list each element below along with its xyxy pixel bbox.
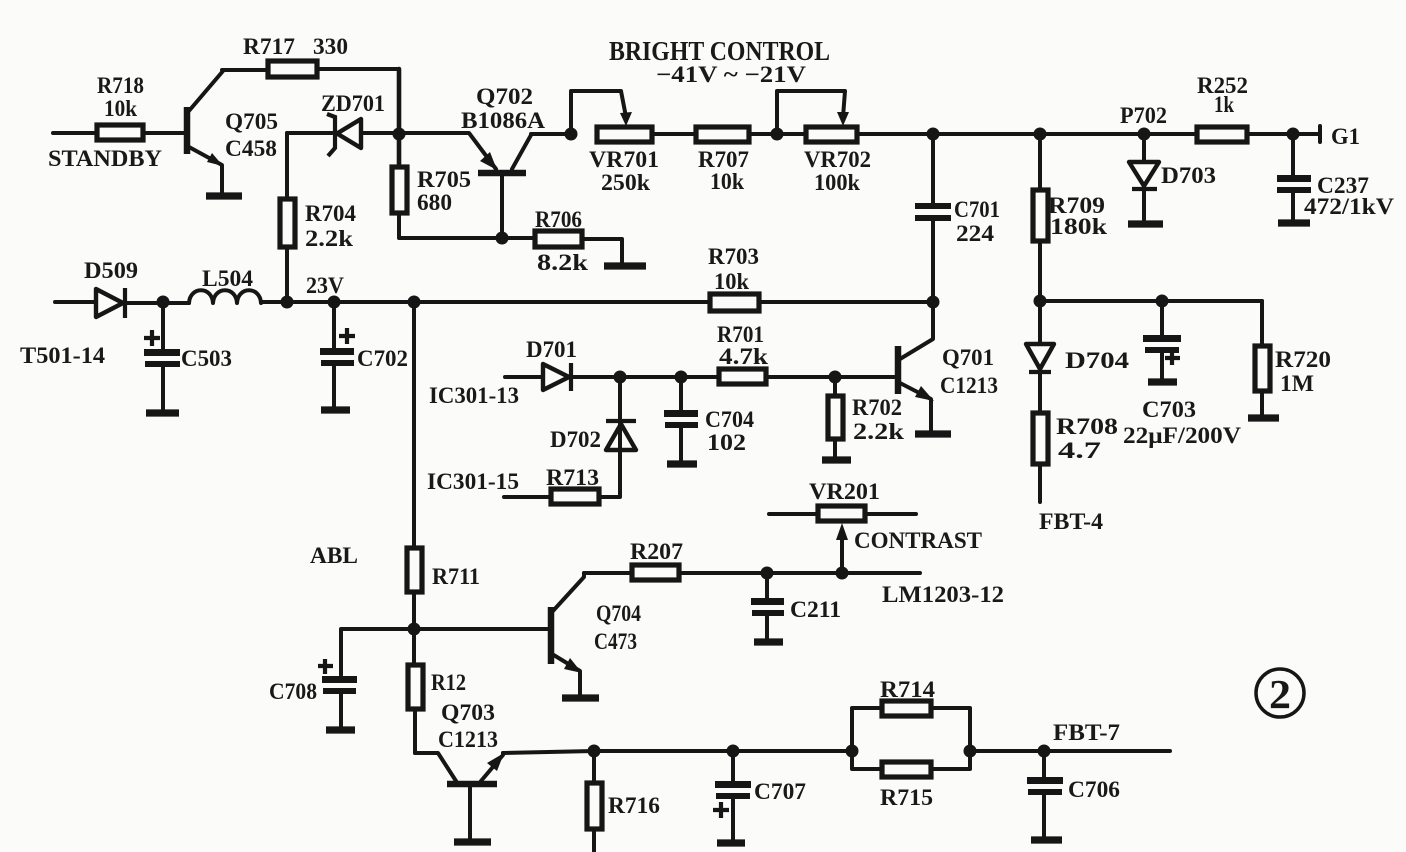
svg-text:ZD701: ZD701: [321, 91, 385, 116]
svg-text:C703: C703: [1142, 397, 1196, 422]
svg-text:C706: C706: [1068, 777, 1120, 802]
node STANDBY label: [48, 146, 162, 171]
wire IC301-13 input: [429, 377, 543, 408]
node junction C707: [727, 745, 740, 758]
capacitor C707: [713, 751, 806, 839]
svg-text:1k: 1k: [1214, 92, 1234, 117]
ground C211: [754, 638, 783, 645]
ground C704: [667, 460, 697, 467]
svg-text:Q701: Q701: [942, 345, 994, 370]
svg-text:C702: C702: [357, 346, 408, 371]
node junction C701 top: [927, 128, 940, 141]
svg-text:R720: R720: [1275, 347, 1331, 372]
node page number 2: [1256, 669, 1304, 717]
resistor R706 8.2k: [502, 207, 622, 275]
wire node to C708: [341, 629, 414, 675]
svg-text:G1: G1: [1331, 124, 1360, 149]
ground Q701 emitter: [915, 430, 951, 437]
svg-text:R207: R207: [630, 539, 683, 564]
svg-text:R717: R717: [243, 34, 295, 59]
resistor R713: [546, 465, 599, 504]
svg-text:VR702: VR702: [804, 147, 871, 172]
svg-text:1M: 1M: [1280, 371, 1314, 396]
node junction ABL/R12/C708: [408, 623, 421, 636]
resistor R252 1k: [1197, 73, 1248, 142]
svg-text:ABL: ABL: [310, 543, 358, 568]
node junction D702 top: [614, 371, 627, 384]
svg-text:C1213: C1213: [940, 373, 998, 398]
resistor R702 2.2k: [828, 377, 904, 456]
svg-text:472/1kV: 472/1kV: [1304, 194, 1394, 219]
svg-text:D704: D704: [1065, 348, 1130, 373]
svg-text:R705: R705: [417, 167, 471, 192]
svg-text:R711: R711: [432, 564, 480, 589]
wire D701 node to C704 node: [620, 375, 681, 379]
wire Q703 to R714 bracket: [503, 751, 852, 753]
resistor R711: [407, 548, 480, 629]
svg-text:4.7k: 4.7k: [719, 344, 768, 369]
node junction C237: [1287, 128, 1300, 141]
svg-text:8.2k: 8.2k: [537, 250, 588, 275]
svg-text:FBT-4: FBT-4: [1039, 509, 1104, 534]
ground R702: [822, 456, 851, 463]
ground C707: [717, 839, 745, 846]
capacitor C701 224: [915, 134, 1000, 300]
node junction R716: [588, 745, 601, 758]
diode D703: [1129, 134, 1216, 221]
potentiometer VR701 250k: [571, 91, 659, 195]
svg-text:Q703: Q703: [441, 700, 495, 725]
svg-text:D701: D701: [526, 337, 577, 362]
node junction C704 top: [675, 371, 688, 384]
resistor R709 180k: [1033, 134, 1107, 301]
transistor Q701: [898, 302, 998, 430]
resistor R720 1M: [1255, 301, 1331, 414]
ground D703: [1128, 220, 1163, 227]
svg-text:LM1203-12: LM1203-12: [882, 582, 1004, 607]
resistor R707 10k: [696, 127, 749, 194]
node LM1203-12 label: [882, 582, 1004, 607]
node CONTRAST label: [854, 528, 982, 553]
svg-text:224: 224: [956, 221, 995, 246]
wire Q702 emitter to rail: [531, 132, 571, 136]
wire node to Q704 base: [414, 627, 548, 631]
wire VR701 to R707: [652, 132, 696, 136]
ground Q704 emitter: [562, 694, 599, 701]
wire T501-14 input: [20, 302, 106, 368]
svg-text:180k: 180k: [1050, 214, 1107, 239]
svg-text:23V: 23V: [306, 273, 344, 298]
resistor R703 10k: [708, 244, 759, 311]
capacitor C702: [320, 302, 408, 406]
svg-text:D509: D509: [84, 258, 138, 283]
svg-text:R12: R12: [431, 670, 466, 695]
capacitor C503: [144, 302, 232, 409]
svg-text:2: 2: [1269, 671, 1291, 717]
svg-text:R716: R716: [608, 793, 660, 818]
svg-text:P702: P702: [1120, 103, 1167, 128]
node junction C701 bottom / Q701 collector: [927, 296, 940, 309]
node junction bracket left: [846, 745, 859, 758]
svg-text:T501-14: T501-14: [20, 343, 106, 368]
wire R707 to VR702: [749, 132, 806, 136]
node junction R702 top: [829, 371, 842, 384]
ground R706: [604, 262, 646, 269]
capacitor C211: [751, 573, 841, 638]
resistor R207: [630, 539, 683, 580]
node junction bracket right: [964, 745, 977, 758]
diode D702 zener: [550, 377, 636, 497]
ground C706: [1031, 836, 1062, 843]
node junction R704 bottom: [281, 296, 294, 309]
wire R252 to G1: [1247, 126, 1320, 142]
svg-text:R715: R715: [880, 785, 933, 810]
capacitor C704 102: [664, 377, 754, 460]
resistor R705 680: [392, 134, 501, 238]
svg-text:C503: C503: [181, 346, 232, 371]
svg-text:B1086A: B1086A: [461, 108, 545, 133]
ground Q705 emitter: [206, 192, 242, 199]
svg-text:IC301-13: IC301-13: [429, 383, 519, 408]
svg-text:330: 330: [313, 34, 348, 59]
wire Q704 collector to R207: [584, 571, 632, 575]
svg-text:Q705: Q705: [225, 109, 278, 134]
ground C708: [326, 726, 355, 733]
svg-text:CONTRAST: CONTRAST: [854, 528, 982, 553]
ground R720: [1248, 414, 1279, 421]
node junction C503: [157, 296, 170, 309]
potentiometer VR201: [769, 479, 916, 573]
svg-text:Q704: Q704: [596, 601, 641, 626]
resistor R717 330: [243, 34, 348, 77]
svg-text:680: 680: [417, 190, 452, 215]
svg-text:2.2k: 2.2k: [305, 226, 353, 251]
transistor Q705: [187, 71, 278, 193]
transistor Q703: [415, 700, 504, 838]
node BRIGHT CONTROL label: [609, 36, 830, 87]
svg-text:C473: C473: [594, 629, 637, 654]
wire vertical R717/ZD701/R705: [397, 69, 402, 168]
svg-text:L504: L504: [202, 266, 254, 291]
svg-text:FBT-7: FBT-7: [1053, 720, 1120, 745]
node FBT-7 label: [1053, 720, 1120, 745]
node junction C703 top: [1156, 295, 1169, 308]
resistor R714: [852, 677, 970, 751]
svg-text:C708: C708: [269, 679, 317, 704]
resistor R12: [408, 629, 466, 753]
node junction D704 top: [1034, 295, 1047, 308]
svg-text:22μF/200V: 22μF/200V: [1123, 423, 1241, 448]
wire R703 to C701 node: [759, 300, 933, 304]
wire ABL vertical: [310, 302, 414, 568]
wire Q705 collector to R717: [222, 68, 268, 72]
node junction ABL branch: [408, 296, 421, 309]
node FBT-4 label: [1039, 509, 1104, 534]
transistor Q704: [551, 573, 641, 694]
wire contrast line: [679, 571, 920, 575]
node G1 label: [1331, 124, 1360, 149]
svg-text:10k: 10k: [714, 269, 749, 294]
wire 23V rail: [261, 273, 710, 302]
wire R718 to Q705 base: [143, 131, 185, 135]
potentiometer VR702 100k: [777, 91, 871, 195]
svg-text:R706: R706: [535, 207, 582, 232]
wire IC301-15 input: [427, 469, 551, 497]
wire STANDBY input: [53, 131, 97, 135]
diode D509: [84, 258, 189, 318]
svg-text:STANDBY: STANDBY: [48, 146, 162, 171]
ground Q703: [454, 838, 491, 845]
resistor R718: [97, 73, 144, 140]
node junction VR702 loop: [771, 128, 784, 141]
capacitor C703 22uF/200V: [1123, 301, 1241, 448]
node junction ZD701/R705: [393, 128, 406, 141]
inductor L504: [189, 266, 261, 303]
capacitor C237 472/1kV: [1277, 134, 1394, 223]
ground C503: [146, 409, 179, 416]
node P702: [1120, 103, 1167, 141]
capacitor C706: [1027, 751, 1120, 836]
node junction VR701 loop: [565, 128, 578, 141]
svg-text:D702: D702: [550, 427, 601, 452]
svg-text:C211: C211: [790, 597, 841, 622]
svg-text:VR201: VR201: [809, 479, 880, 504]
svg-text:C701: C701: [954, 197, 1000, 222]
node junction R709 top: [1034, 128, 1047, 141]
svg-text:10k: 10k: [710, 169, 744, 194]
svg-text:C707: C707: [754, 779, 806, 804]
diode D701: [526, 337, 620, 391]
svg-text:250k: 250k: [601, 170, 650, 195]
resistor R715: [852, 751, 970, 810]
node junction VR201 wiper: [836, 567, 849, 580]
diode ZD701: [287, 91, 394, 156]
svg-text:R718: R718: [97, 73, 144, 98]
svg-text:C1213: C1213: [438, 727, 498, 752]
node junction C702: [328, 296, 341, 309]
svg-text:R713: R713: [546, 465, 599, 490]
wire R701 to Q701 base: [766, 375, 896, 379]
node junction C706: [1038, 745, 1051, 758]
svg-text:102: 102: [707, 430, 746, 455]
resistor R701 4.7k: [717, 322, 768, 384]
svg-text:IC301-15: IC301-15: [427, 469, 519, 494]
svg-text:R704: R704: [305, 201, 356, 226]
wire C704 node to R701: [681, 375, 719, 379]
svg-text:−41V ~ −21V: −41V ~ −21V: [656, 62, 806, 87]
svg-text:R703: R703: [708, 244, 759, 269]
svg-text:4.7: 4.7: [1058, 438, 1101, 463]
svg-text:Q702: Q702: [476, 84, 533, 109]
svg-text:R714: R714: [880, 677, 936, 702]
svg-text:100k: 100k: [814, 170, 860, 195]
resistor R716: [587, 751, 660, 852]
wire to FBT-7: [970, 749, 1170, 753]
resistor R708 4.7: [1033, 413, 1118, 502]
svg-text:VR701: VR701: [589, 147, 659, 172]
wire right bias rail: [1040, 299, 1262, 303]
svg-text:2.2k: 2.2k: [853, 419, 904, 444]
wire top rail VR702 to P702: [857, 132, 1197, 136]
ground C702: [321, 406, 350, 413]
svg-text:R708: R708: [1056, 414, 1118, 439]
svg-text:10k: 10k: [104, 96, 137, 121]
node junction C211: [761, 567, 774, 580]
svg-text:C458: C458: [225, 136, 277, 161]
diode D704: [1026, 301, 1130, 413]
wire R717 to vertical node: [317, 67, 399, 71]
svg-text:R702: R702: [852, 395, 902, 420]
node junction Q702 base / R706: [496, 232, 509, 245]
capacitor C708: [269, 659, 357, 726]
svg-text:C704: C704: [705, 407, 754, 432]
transistor Q702: [399, 84, 545, 238]
resistor R704 2.2k: [280, 133, 356, 300]
svg-text:D703: D703: [1161, 163, 1216, 188]
